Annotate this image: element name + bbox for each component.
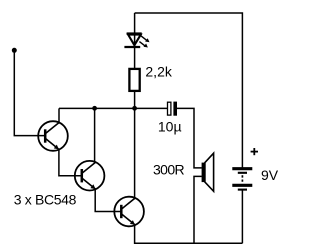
wire Q3 emitter to ground rail [135,225,243,244]
node junction resistor/T3/capacitor [132,106,137,111]
svg-text:300R: 300R [153,161,185,177]
svg-text:2,2k: 2,2k [145,64,172,80]
svg-text:9V: 9V [261,167,279,183]
wire T3 collector lead [134,108,136,198]
wire LED anode lead [134,13,136,46]
wire battery minus to ground rail [241,191,243,244]
wire T1 collector lead [58,108,60,123]
battery BT1 9V [232,169,252,190]
wire antenna to T1 base [14,50,45,135]
wire resistor to rail [134,91,136,109]
transistor Q3 [114,197,144,227]
svg-text:3 x BC548: 3 x BC548 [14,192,77,208]
wire Q1 emitter to Q2 base [59,149,82,176]
wire Q2 emitter to Q3 base [95,189,121,212]
speaker LS 300R [202,153,214,191]
wire capacitor to speaker [177,108,202,167]
transistor Q1 [38,121,68,151]
wire collector rail [59,107,168,109]
node touch-contact dot [12,48,17,53]
resistor R1 2,2k [129,69,139,91]
capacitor C1 10µ left plate [168,102,171,115]
svg-text:10µ: 10µ [158,119,182,135]
transistor Q2 [75,161,105,191]
wire speaker to ground rail [194,176,202,243]
capacitor C1 10µ right plate [173,102,177,116]
wire top rail [135,13,243,168]
wire LED cathode to resistor [134,47,136,69]
node junction T2 collector [92,106,97,111]
wire T2 collector lead [94,108,96,162]
LED D1 [124,34,149,48]
label battery plus sign [251,148,258,155]
